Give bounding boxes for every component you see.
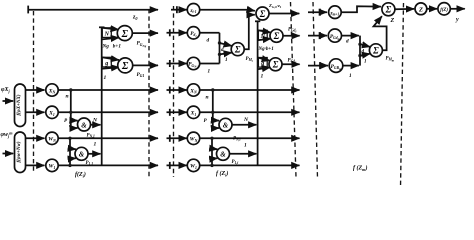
- junction dot W_1 row s2: [210, 164, 213, 167]
- svg-text:&: &: [79, 151, 85, 159]
- svg-text:1: 1: [94, 142, 97, 148]
- svg-text:Ng: Ng: [102, 43, 110, 49]
- wire input arrow to membership block A: [3, 100, 14, 102]
- dashed separator line D5: [313, 2, 318, 178]
- block N (boxed label): [102, 28, 111, 38]
- wire row P_Gd to bus4: [342, 35, 359, 37]
- svg-text:Σ: Σ: [121, 29, 129, 40]
- wire arrow into AND1 upper input: [71, 119, 78, 121]
- wire row W_1 section2: [200, 164, 300, 166]
- function block fB (rounded capsule): [15, 132, 26, 173]
- node P_d1: [187, 27, 199, 39]
- wire row P_GNg to bus2a: [200, 63, 220, 65]
- wire row X_1 section2: [200, 111, 300, 113]
- svg-text:n: n: [206, 95, 209, 101]
- wire branch to SUM3 lower: [360, 54, 370, 56]
- multiplier AND3: [219, 118, 232, 131]
- svg-text:f(φX+NX): f(φX+NX): [17, 94, 22, 115]
- node X_1 s2: [187, 106, 199, 118]
- junction dot bus4 upper: [358, 43, 361, 46]
- svg-text:PN,1: PN,1: [87, 134, 96, 139]
- junction dot bus2a upper: [218, 41, 221, 44]
- svg-text:f(φw+Nw): f(φw+Nw): [17, 141, 22, 162]
- wire arrow into AND2 upper input: [70, 148, 76, 151]
- node P_Gd: [328, 29, 341, 42]
- wire stub into P_Gd with tick: [308, 35, 327, 37]
- wire SUMtop3 to Z block: [395, 8, 414, 10]
- summer SUMtop2: [256, 7, 269, 20]
- wire arrow into AND3 upper input: [213, 119, 219, 121]
- wire stub into W_1 s2 with tick: [167, 164, 187, 166]
- wire SUMbot2 output: [282, 63, 300, 65]
- wire AND3 output to bus3: [232, 124, 256, 126]
- bus2a vertical: [219, 33, 221, 64]
- wire z_m+1 to SUMtop3 with step: [341, 6, 381, 12]
- junction dot on W_N row: [68, 137, 71, 140]
- bus1 vertical collector section1: [101, 27, 103, 165]
- wire stub into P_d1 with tick: [167, 32, 187, 34]
- multiplier AND4: [217, 147, 230, 160]
- svg-text:P1,1: P1,1: [86, 161, 94, 166]
- wire arrow into AND1 lower input: [71, 127, 78, 129]
- wire branch bus3 to SUMbot2 upper: [258, 58, 270, 61]
- wire z0 line: [28, 9, 158, 11]
- svg-text:b+1: b+1: [113, 43, 122, 49]
- junction dot bus2a lower: [218, 53, 221, 56]
- wire row P_d1 to bus2a: [200, 32, 220, 34]
- wire stub into P_GB with tick: [308, 65, 328, 67]
- wire row P_GB to bus4: [343, 65, 359, 67]
- svg-text:φXj: φXj: [1, 87, 11, 94]
- node P_GN-1: [187, 57, 199, 69]
- wire arrow into AND2 lower input: [70, 157, 76, 160]
- dashed separator line D3: [173, 6, 175, 177]
- node W_N s2: [187, 132, 199, 144]
- dashed separator line D6: [401, 3, 404, 188]
- wire Z to f(Z): [427, 8, 437, 10]
- summer SUMbot2: [269, 58, 282, 71]
- dashed separator line D2: [148, 9, 150, 177]
- svg-text:p: p: [203, 117, 207, 123]
- wire AND2 output to bus1: [88, 153, 101, 155]
- wire row W_N section1: [58, 137, 158, 139]
- wire feeder X rows to AND3: [212, 90, 214, 128]
- wire SUMi output riser to SUMtop2: [244, 15, 255, 49]
- wire stub into X_1 s2 with tick: [167, 111, 187, 113]
- wire z_i-1 to SUMtop2: [200, 10, 255, 11]
- svg-text:Z: Z: [418, 6, 423, 13]
- junction dot on W_1 row: [68, 164, 71, 167]
- svg-text:f(Zi): f(Zi): [75, 171, 86, 178]
- wire feeder X rows to AND1: [70, 90, 72, 128]
- wire branch to SUMi lower: [220, 53, 232, 55]
- svg-text:Σ: Σ: [273, 31, 280, 41]
- svg-text:Σ: Σ: [385, 5, 392, 15]
- summer SUM2: [118, 58, 133, 73]
- summer SUMi: [231, 43, 244, 56]
- svg-text:y: y: [455, 17, 459, 23]
- wire output y: [450, 8, 465, 10]
- wire branch bus3 to SUMbot2 lower: [258, 67, 271, 69]
- wire row X_N section1: [58, 89, 158, 91]
- summer SUMmid2: [270, 29, 283, 42]
- block g (boxed label): [102, 57, 111, 67]
- node W_1: [46, 159, 58, 171]
- dashed separator line D1: [33, 11, 35, 171]
- wire branch bus3 to SUMmid2 upper: [258, 30, 271, 32]
- svg-text:d: d: [207, 38, 210, 44]
- junction dot on X_N row: [69, 88, 72, 91]
- block g s2 (boxed label): [258, 58, 267, 68]
- wire SUMmid2 output: [283, 35, 300, 37]
- wire arrow into AND3 lower input: [213, 127, 219, 129]
- wire branch bus1 to SUM2 lower: [102, 67, 120, 69]
- svg-text:N: N: [104, 32, 110, 38]
- wire feeder W rows to AND4: [211, 138, 213, 165]
- wire stub into P_GNg with tick: [167, 63, 187, 65]
- svg-text:g: g: [104, 61, 108, 67]
- svg-text:&: &: [223, 122, 229, 130]
- junction dot bus4 lower: [358, 54, 361, 57]
- svg-text:f (Zm): f (Zm): [353, 165, 367, 172]
- wire stub into X_N s2 with tick: [167, 89, 187, 91]
- svg-text:Σ: Σ: [121, 61, 129, 72]
- junction dot X_N row s2: [211, 88, 214, 91]
- node X_N s2: [187, 84, 199, 96]
- multiplier AND1: [78, 118, 91, 131]
- block N s2 (boxed label): [258, 30, 267, 40]
- wire capsule A to X_1: [26, 111, 45, 113]
- multiplier AND2: [75, 147, 88, 160]
- wire AND4 output to bus3: [230, 153, 257, 155]
- wire branch bus1 to SUM2 upper: [102, 57, 119, 60]
- wire stub into z_i-1 with tick: [171, 9, 187, 11]
- junction dot W_N row s2: [210, 137, 213, 140]
- svg-text:z0: z0: [132, 15, 138, 21]
- function block fA (rounded capsule): [15, 84, 26, 127]
- svg-text:Σ: Σ: [272, 60, 279, 70]
- bus3 vertical collector section2: [257, 21, 259, 165]
- wire branch to SUM3 upper: [360, 44, 370, 47]
- wire row X_N section2: [200, 89, 300, 91]
- wire branch bus1 to SUM1 lower: [102, 38, 119, 40]
- svg-text:&: &: [220, 151, 226, 159]
- summer SUM3: [369, 44, 382, 57]
- wire row X_1 section1: [58, 111, 158, 113]
- svg-text:1: 1: [244, 143, 247, 149]
- svg-text:1: 1: [208, 69, 211, 75]
- wire capsule A to X_N: [26, 89, 45, 91]
- svg-text:f(Z): f(Z): [440, 8, 448, 13]
- svg-text:1: 1: [261, 73, 264, 79]
- svg-text:Σ: Σ: [234, 45, 241, 55]
- node W_N: [46, 132, 58, 144]
- svg-text:N: N: [260, 34, 266, 40]
- wire SUMtop2 output: [269, 13, 299, 15]
- svg-text:&: &: [81, 121, 87, 129]
- junction dot on X_1 row: [69, 111, 72, 114]
- node X_N: [46, 84, 58, 96]
- summer SUMtop3: [382, 3, 395, 16]
- svg-text:PN,i: PN,i: [233, 137, 241, 142]
- wire SUM1 output: [132, 32, 158, 34]
- svg-text:n: n: [66, 94, 69, 100]
- wire stub into W_N s2 with tick: [167, 137, 187, 139]
- node X_1: [46, 106, 58, 118]
- svg-text:f (Zi): f (Zi): [216, 170, 228, 177]
- wire branch bus3 to SUMmid2 lower: [258, 39, 271, 41]
- wire capsule B to W_N: [26, 137, 45, 139]
- wire feeder W rows to AND2: [69, 138, 71, 165]
- node z0 input tick: [27, 6, 29, 14]
- wire SUM2 output: [132, 64, 158, 66]
- svg-text:d: d: [346, 39, 349, 45]
- wire capsule B to W_1: [26, 164, 45, 166]
- wire stub into z_m+1 with tick: [308, 11, 327, 13]
- node Z: [415, 3, 427, 15]
- junction dot X_1 row s2: [211, 111, 214, 114]
- summer SUM1: [117, 26, 132, 41]
- svg-text:Z: Z: [390, 18, 395, 24]
- node P_GB: [329, 59, 343, 73]
- svg-text:p: p: [64, 117, 68, 123]
- svg-text:1: 1: [104, 75, 107, 81]
- bus3 top tick: [255, 20, 260, 22]
- wire row W_N section2: [200, 137, 300, 139]
- wire input arrow to membership block B: [3, 153, 14, 155]
- node f(Z): [438, 3, 450, 15]
- bus1 top tick: [99, 26, 105, 28]
- svg-text:Σ: Σ: [259, 9, 266, 19]
- node z_m+1: [329, 6, 342, 19]
- dashed separator line D4: [291, 2, 297, 177]
- wire branch bus1 to SUM1 upper: [102, 28, 119, 30]
- wire AND1 output to bus1: [91, 124, 101, 126]
- svg-text:1: 1: [225, 58, 228, 63]
- svg-text:1: 1: [349, 73, 352, 79]
- svg-text:P1,i: P1,i: [232, 160, 239, 165]
- wire SUM3 output feedback to SUMtop3: [374, 16, 387, 50]
- wire arrow into AND4 lower input: [212, 157, 217, 160]
- bus4 vertical section3: [359, 36, 361, 66]
- svg-text:Ng·b+1: Ng·b+1: [258, 47, 274, 52]
- svg-text:Σ: Σ: [372, 46, 379, 56]
- wire arrow into AND4 upper input: [212, 148, 217, 151]
- svg-text:g: g: [260, 61, 264, 67]
- node W_1 s2: [187, 159, 199, 171]
- svg-text:1: 1: [364, 60, 367, 65]
- wire row W_1 section1: [58, 164, 158, 166]
- wire branch to SUMi upper: [220, 43, 232, 46]
- node z_i-1: [187, 4, 199, 16]
